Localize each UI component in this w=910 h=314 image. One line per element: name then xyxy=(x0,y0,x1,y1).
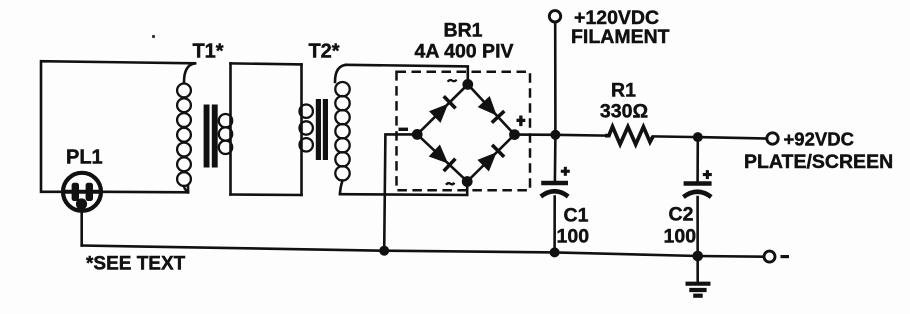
node bridge AC bottom xyxy=(462,176,473,187)
wire xyxy=(698,137,767,138)
node rail / filament riser xyxy=(550,130,560,140)
svg-text:C2: C2 xyxy=(669,204,694,226)
wire xyxy=(103,191,189,194)
wire bottom bus xyxy=(82,246,764,257)
svg-text:4A 400 PIV: 4A 400 PIV xyxy=(414,41,513,63)
node bridge plus xyxy=(509,129,520,140)
ground xyxy=(686,284,711,296)
wire xyxy=(555,134,606,137)
bridge rectifier BR1 dashed outline xyxy=(397,72,531,190)
node bus / C1 xyxy=(550,247,560,257)
wire xyxy=(346,65,468,85)
wire xyxy=(384,134,417,250)
terminal minus xyxy=(764,251,775,262)
transformer T2 primary winding xyxy=(300,64,313,195)
label minus (bridge) xyxy=(399,128,409,131)
wire xyxy=(340,182,467,196)
svg-text:T1*: T1* xyxy=(192,40,223,62)
capacitor C2 xyxy=(683,184,711,198)
svg-text:*SEE TEXT: *SEE TEXT xyxy=(86,254,186,275)
svg-text:PLATE/SCREEN: PLATE/SCREEN xyxy=(744,151,893,173)
wire xyxy=(80,209,83,246)
wire xyxy=(696,197,699,283)
svg-text:T2*: T2* xyxy=(308,40,339,62)
svg-text:C1: C1 xyxy=(564,205,589,227)
label minus (terminal) xyxy=(781,255,790,258)
node rail / C2 xyxy=(693,132,703,142)
wire xyxy=(553,197,556,253)
wire xyxy=(515,133,556,136)
label plus (C2) xyxy=(703,170,712,179)
transformer T1 secondary winding xyxy=(219,63,232,194)
svg-text:PL1: PL1 xyxy=(66,147,103,169)
svg-text:FILAMENT: FILAMENT xyxy=(571,26,670,48)
transformer T1 core xyxy=(204,105,218,168)
transformer T2 core xyxy=(316,99,328,160)
bridge diode D1 (left to top) xyxy=(429,96,456,123)
wire xyxy=(696,137,699,181)
bridge diode D3 (left to bottom) xyxy=(429,145,456,172)
wire xyxy=(231,63,302,64)
svg-text:BR1: BR1 xyxy=(443,20,482,42)
bridge diode D2 (top to right) xyxy=(478,96,505,123)
node bridge AC top xyxy=(462,79,473,90)
wire bridge diamond xyxy=(417,84,514,181)
node bridge minus xyxy=(412,129,423,140)
transformer T2 secondary winding xyxy=(335,65,350,194)
resistor R1 xyxy=(605,127,653,145)
svg-text:+92VDC: +92VDC xyxy=(784,128,854,149)
transformer T1 primary winding xyxy=(177,63,195,192)
svg-text:R1: R1 xyxy=(611,80,636,102)
wire xyxy=(41,61,195,192)
wire xyxy=(653,135,698,138)
label ~ bottom xyxy=(446,183,455,185)
label ~ top xyxy=(448,80,457,82)
bridge diode D4 (bottom to right) xyxy=(477,145,504,172)
terminal +92VDC xyxy=(767,133,778,144)
node bus / C2 / ground xyxy=(692,251,703,262)
capacitor C1 xyxy=(541,183,568,197)
svg-text:100: 100 xyxy=(664,226,697,248)
wire xyxy=(231,193,302,196)
label plus (C1) xyxy=(561,167,570,176)
node bus / bridge minus xyxy=(379,246,389,256)
plug PL1 xyxy=(63,173,101,211)
wire xyxy=(554,22,557,181)
terminal +120VDC xyxy=(549,11,560,22)
svg-text:100: 100 xyxy=(557,226,590,248)
label plus (bridge) xyxy=(517,116,526,127)
svg-text:330Ω: 330Ω xyxy=(600,101,648,123)
